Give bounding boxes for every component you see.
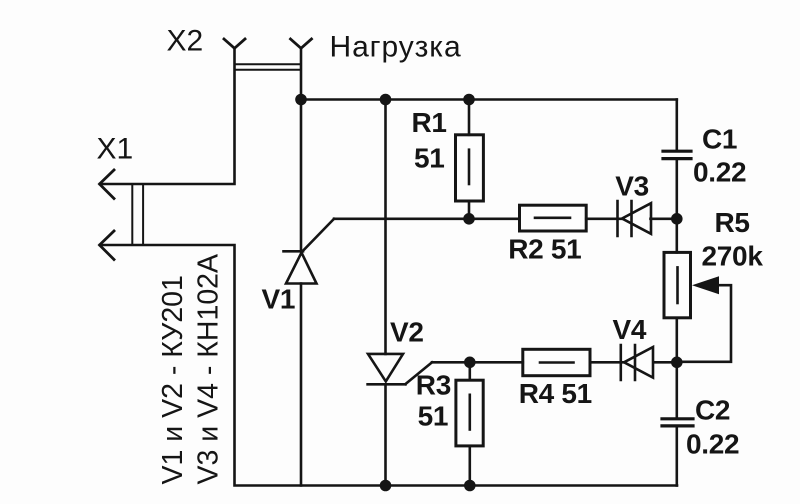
svg-text:0.22: 0.22 bbox=[693, 157, 746, 188]
svg-text:R5: R5 bbox=[715, 207, 750, 238]
svg-text:V1: V1 bbox=[262, 284, 296, 315]
svg-text:270k: 270k bbox=[702, 241, 764, 272]
svg-text:X1: X1 bbox=[97, 133, 134, 166]
svg-text:51: 51 bbox=[418, 401, 449, 432]
svg-text:51: 51 bbox=[414, 143, 445, 174]
svg-text:C2: C2 bbox=[695, 395, 730, 426]
svg-text:R3: R3 bbox=[416, 370, 451, 401]
svg-text:X2: X2 bbox=[167, 25, 204, 58]
svg-text:V1 и V2 - КУ201: V1 и V2 - КУ201 bbox=[157, 275, 189, 484]
svg-text:R1: R1 bbox=[412, 107, 447, 138]
svg-text:V3 и V4 - КН102А: V3 и V4 - КН102А bbox=[193, 254, 225, 485]
svg-text:0.22: 0.22 bbox=[686, 429, 739, 460]
svg-text:R4 51: R4 51 bbox=[519, 378, 592, 409]
svg-text:V4: V4 bbox=[613, 314, 647, 345]
svg-text:V3: V3 bbox=[615, 171, 649, 202]
svg-text:R2 51: R2 51 bbox=[508, 234, 581, 265]
svg-text:C1: C1 bbox=[702, 124, 737, 155]
svg-text:V2: V2 bbox=[390, 317, 424, 348]
svg-text:Нагрузка: Нагрузка bbox=[330, 31, 462, 64]
